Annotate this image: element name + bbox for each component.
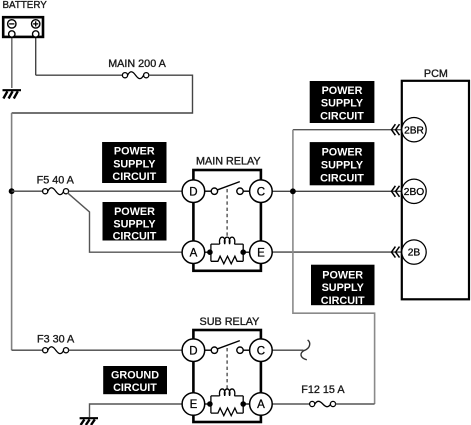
svg-text:MAIN 200 A: MAIN 200 A [108,58,166,70]
main relay pin E [250,241,273,264]
wire bus to fuse F3 [12,349,43,351]
svg-text:A: A [257,399,265,411]
power supply circuit box 2 [103,202,167,243]
svg-text:D: D [189,345,197,357]
svg-text:E: E [190,399,198,411]
svg-text:E: E [257,247,265,259]
svg-text:CIRCUIT: CIRCUIT [112,171,156,183]
svg-text:MAIN RELAY: MAIN RELAY [196,155,261,167]
fuse F5 40 A [43,188,69,195]
wire sub relay A to fuse F12 [272,403,309,405]
svg-text:F5 40 A: F5 40 A [37,175,75,187]
node junction 2BO [290,188,296,194]
fuse MAIN 200 A [122,72,148,79]
svg-text:PCM: PCM [424,68,448,80]
svg-text:POWER: POWER [114,206,155,218]
svg-text:CIRCUIT: CIRCUIT [321,295,365,307]
svg-text:GROUND: GROUND [111,370,159,382]
wire vertical feeder [293,130,375,404]
power supply circuit box 5 [311,265,375,307]
main relay switch [205,182,250,195]
svg-text:2B: 2B [408,248,421,259]
main relay pin D [182,180,205,203]
continuation squiggle [301,340,310,360]
sub relay coil and resistor [205,389,250,416]
svg-text:CIRCUIT: CIRCUIT [113,231,157,243]
pin 2BO [402,179,426,203]
ground battery [3,90,22,98]
sub relay switch [205,341,250,354]
connector chevrons 2BO [392,186,400,197]
main relay box [193,170,261,271]
svg-text:POWER: POWER [114,146,155,158]
svg-text:SUPPLY: SUPPLY [322,282,365,294]
wire battery+ to fuse MAIN [36,74,123,76]
wire sub relay E to ground [90,404,183,417]
wire fuse F12 to feeder [336,403,375,405]
power supply circuit box 4 [310,142,375,185]
fuse F3 30 A [43,347,69,354]
svg-text:CIRCUIT: CIRCUIT [113,382,157,394]
sub relay pin A [250,393,273,416]
wire F3 to sub relay D [69,349,183,351]
ground sub relay [80,418,98,425]
svg-text:POWER: POWER [322,269,363,281]
main relay dashed link [226,189,228,239]
sub relay box [193,330,261,422]
pin 2BR [402,118,426,142]
svg-text:POWER: POWER [322,85,363,97]
wire 2BR feed [293,129,402,131]
main relay coil and resistor [205,237,250,264]
power supply circuit box 3 [310,81,375,123]
PCM box [402,81,469,299]
svg-text:CIRCUIT: CIRCUIT [320,173,364,185]
sub relay pin C [250,339,273,362]
main relay pin C [250,180,273,203]
sub relay pin D [182,339,205,362]
wire battery negative to ground [11,37,13,88]
svg-text:SUPPLY: SUPPLY [113,218,156,230]
svg-text:POWER: POWER [322,147,363,159]
wire F5 branch to main relay A [68,193,183,252]
main relay pin A [182,241,205,264]
svg-text:SUB RELAY: SUB RELAY [200,316,260,328]
wire bus to fuse F5 [12,190,43,192]
svg-text:SUPPLY: SUPPLY [321,160,364,172]
wire F5 to main relay D [69,190,183,192]
svg-text:F3 30 A: F3 30 A [37,333,75,345]
sub relay pin E [182,393,205,416]
svg-text:2BR: 2BR [404,125,424,136]
svg-text:F12 15 A: F12 15 A [301,384,345,396]
svg-text:BATTERY: BATTERY [3,0,48,11]
svg-text:D: D [189,186,197,198]
fuse F12 15 A [310,401,336,406]
svg-text:CIRCUIT: CIRCUIT [320,110,364,122]
sub relay dashed link [226,348,228,390]
wire fuse MAIN down to bus [12,75,193,113]
node junction F5 [9,188,15,194]
svg-text:C: C [257,186,265,198]
connector chevrons 2B [392,247,400,258]
wire sub relay C continuation [261,349,304,351]
wire main relay E to 2B [261,251,402,253]
battery B1 [3,17,43,37]
wire battery positive down [35,37,37,75]
wire left bus [11,113,13,350]
svg-text:SUPPLY: SUPPLY [113,158,156,170]
svg-text:C: C [257,345,265,357]
svg-text:A: A [190,247,198,259]
svg-text:SUPPLY: SUPPLY [321,98,364,110]
pin 2B [402,240,426,264]
power supply circuit box 1 [102,142,166,183]
connector chevrons 2BR [392,124,400,135]
ground circuit box [103,366,167,394]
wire main relay C to 2BO [261,190,402,192]
svg-text:2BO: 2BO [404,187,424,198]
